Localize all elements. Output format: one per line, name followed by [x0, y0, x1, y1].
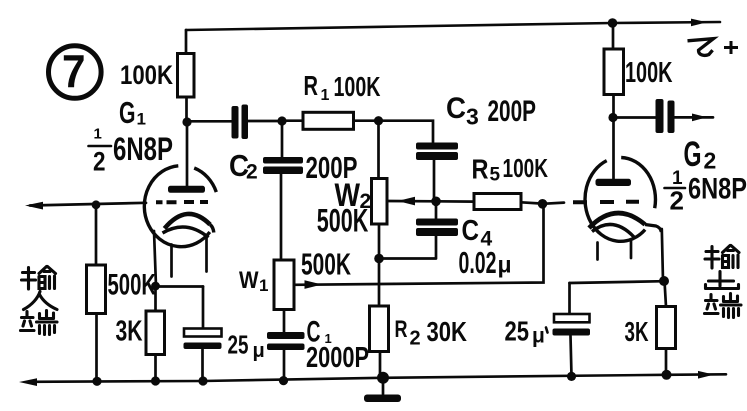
- svg-text:500K: 500K: [301, 247, 351, 282]
- svg-text:2: 2: [704, 148, 717, 174]
- svg-text:W: W: [239, 267, 259, 294]
- svg-text:5: 5: [490, 165, 501, 186]
- svg-text:25: 25: [505, 316, 530, 347]
- svg-text:R: R: [472, 154, 489, 185]
- svg-text:R: R: [395, 316, 408, 343]
- svg-text:25: 25: [228, 330, 249, 360]
- svg-text:3K: 3K: [116, 316, 143, 348]
- svg-text:1: 1: [259, 276, 268, 295]
- svg-text:6N8P: 6N8P: [113, 131, 173, 167]
- svg-text:100K: 100K: [625, 57, 673, 89]
- svg-text:30K: 30K: [427, 316, 468, 347]
- svg-text:3K: 3K: [625, 316, 649, 347]
- svg-text:1: 1: [321, 87, 330, 104]
- svg-text:6N8P: 6N8P: [688, 173, 747, 206]
- svg-text:100K: 100K: [120, 60, 173, 90]
- svg-text:7: 7: [62, 45, 86, 97]
- svg-text:100K: 100K: [503, 153, 549, 183]
- svg-text:0.02: 0.02: [459, 245, 497, 280]
- svg-text:G: G: [684, 135, 702, 174]
- svg-text:1: 1: [94, 126, 102, 143]
- svg-text:2: 2: [93, 147, 106, 177]
- svg-text:500K: 500K: [317, 203, 369, 239]
- svg-text:G: G: [119, 95, 136, 130]
- svg-text:R: R: [304, 70, 319, 101]
- svg-text:1: 1: [137, 110, 146, 129]
- svg-text:μ: μ: [532, 325, 545, 348]
- svg-text:2: 2: [246, 161, 258, 184]
- svg-text:C: C: [446, 92, 466, 125]
- svg-text:μ: μ: [253, 340, 265, 362]
- svg-text:3: 3: [466, 104, 479, 130]
- svg-text:200P: 200P: [488, 95, 537, 128]
- svg-text:2000P: 2000P: [306, 342, 369, 374]
- svg-text:100K: 100K: [334, 71, 381, 102]
- svg-text:2: 2: [410, 328, 421, 350]
- svg-text:500K: 500K: [108, 269, 157, 302]
- svg-text:μ: μ: [498, 252, 512, 278]
- svg-text:C: C: [462, 215, 480, 247]
- svg-text:2: 2: [670, 186, 684, 216]
